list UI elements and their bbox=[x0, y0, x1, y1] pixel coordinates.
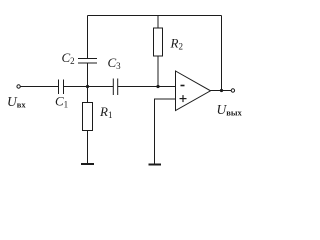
op-amp plus sign bbox=[180, 95, 187, 102]
node A junction dot bbox=[86, 85, 89, 88]
capacitor C1 bbox=[59, 80, 64, 95]
op-amp minus sign bbox=[181, 85, 185, 87]
wire R2 to node B bbox=[157, 56, 159, 87]
resistor R1 bbox=[83, 103, 93, 131]
ground (R1) bbox=[81, 163, 94, 165]
wire R1 to ground bbox=[87, 131, 89, 164]
wire input to C1 bbox=[20, 86, 58, 88]
input terminal circle bbox=[17, 85, 20, 88]
resistor R2 bbox=[154, 28, 163, 56]
right feedback wire down bbox=[221, 16, 223, 91]
wire node A down to R1 bbox=[87, 87, 89, 103]
capacitor C2 bbox=[78, 59, 97, 64]
output terminal circle bbox=[231, 89, 234, 92]
op-amp U1 triangle bbox=[176, 71, 211, 111]
node B junction dot bbox=[156, 85, 159, 88]
top feedback wire bbox=[88, 15, 222, 17]
wire C3 to op-amp bbox=[118, 86, 176, 88]
wire node A up to C2 bbox=[87, 63, 89, 87]
wire non-inverting input bbox=[155, 99, 176, 164]
wire C2 up to top rail bbox=[87, 16, 89, 59]
output wire bbox=[211, 90, 232, 92]
wire top rail down to R2 bbox=[157, 16, 159, 29]
output junction dot bbox=[220, 89, 223, 92]
wire C1 to C3 bbox=[64, 86, 114, 88]
ground (op-amp +) bbox=[149, 164, 162, 166]
capacitor C3 bbox=[113, 79, 117, 96]
